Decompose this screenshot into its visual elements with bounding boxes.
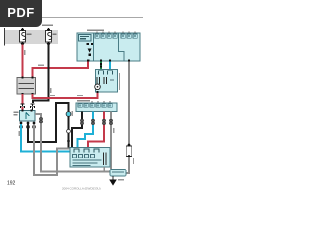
ECM box (top right): [77, 29, 140, 61]
relay box: [17, 76, 36, 95]
wire label: [77, 95, 83, 96]
node label: [72, 111, 73, 116]
wire red: ECM pin to relay pin 2: [33, 62, 89, 78]
ECM label above: [87, 29, 104, 31]
inline connector pair right: [31, 104, 35, 108]
pin ring connectors: [20, 125, 23, 128]
wire cyan A: switch to bottom ECU left: [21, 124, 70, 152]
wire gray: bottom box stub to ground run: [103, 167, 105, 172]
shield ground arrow: [110, 176, 116, 185]
wire red: relay to inline connector: [22, 94, 24, 104]
inline connector bead: [39, 118, 42, 123]
label above fuse AM2: [42, 25, 53, 27]
wire gray: component to shield pill right: [126, 157, 129, 173]
resistor component on right column: [126, 143, 134, 164]
wire red: connector into switch box: [22, 107, 24, 111]
svg-text:2004 COROLLA (EWD533U): 2004 COROLLA (EWD533U): [62, 186, 101, 190]
wire gray B: switch side pin long ground run: [35, 114, 110, 172]
wire label: [19, 131, 20, 136]
band pin numbers: [80, 105, 111, 107]
band label above: [77, 100, 90, 101]
inline connector bead: [80, 119, 83, 124]
power source strip: [5, 30, 58, 44]
bottom pins: [19, 121, 22, 124]
ECM top pin boxes: [95, 34, 137, 38]
ground label: [118, 179, 124, 180]
wire gray A: switch pin to bottom ECU side: [34, 124, 70, 175]
wire cyan: ECM to noise filter: [109, 62, 111, 71]
junction dot: [100, 63, 102, 65]
page top rule: [5, 17, 143, 19]
ECM bottom pins: [87, 59, 89, 61]
fuse F2: [46, 28, 57, 46]
wire red: band drop 3: [88, 112, 104, 149]
splice node (teal): [66, 112, 71, 117]
wire cyan B: band drop 2: [78, 112, 94, 149]
ECM pin numbers above: [97, 31, 98, 33]
page background: [0, 0, 149, 198]
inline connector bead: [109, 119, 112, 124]
band pin numbers above: [92, 101, 93, 103]
inline connector bead: [102, 119, 105, 124]
wire red: relay pin 4 to noise filter (long horizontal): [33, 92, 98, 99]
wire black loop: switch to junction line: [28, 103, 69, 148]
ECU band (middle): [76, 100, 117, 111]
wire label: [49, 95, 55, 96]
ignition switch small box: [14, 109, 36, 128]
ECM internal divider 1: [93, 33, 95, 61]
wire label: [38, 65, 44, 66]
wire gray: ECM pin down right column: [128, 62, 130, 146]
page left border tick: [4, 28, 6, 46]
wire black: band drop 1: [72, 112, 82, 149]
wire black: fuse F2 down to connector: [33, 45, 49, 104]
wire green: ECM to noise filter: [100, 62, 102, 71]
inline connector bead: [91, 119, 94, 124]
wire label (gray drop): [113, 128, 114, 133]
wire red: fuse F1 to relay pin 1: [22, 45, 24, 78]
shield pill box: [110, 170, 126, 177]
ECM pin numbers: [97, 35, 136, 37]
svg-text:192: 192: [7, 181, 16, 187]
wire gray: band drop 4 to shield pill: [110, 112, 112, 170]
bottom ECU box: [70, 148, 110, 168]
inline connector pair left: [21, 104, 25, 108]
wire label: [24, 50, 25, 55]
noise filter box: [95, 70, 120, 94]
PDF badge overlay: [0, 0, 42, 27]
noise filter vertical label: [119, 73, 120, 90]
wire label: [50, 88, 51, 93]
ECM internal diode symbols: [87, 43, 89, 45]
wire black: connector into switch box: [32, 107, 34, 111]
ECM internal step divider: [119, 33, 125, 61]
fusible link F1: [20, 28, 32, 46]
connector node (white): [67, 129, 71, 133]
